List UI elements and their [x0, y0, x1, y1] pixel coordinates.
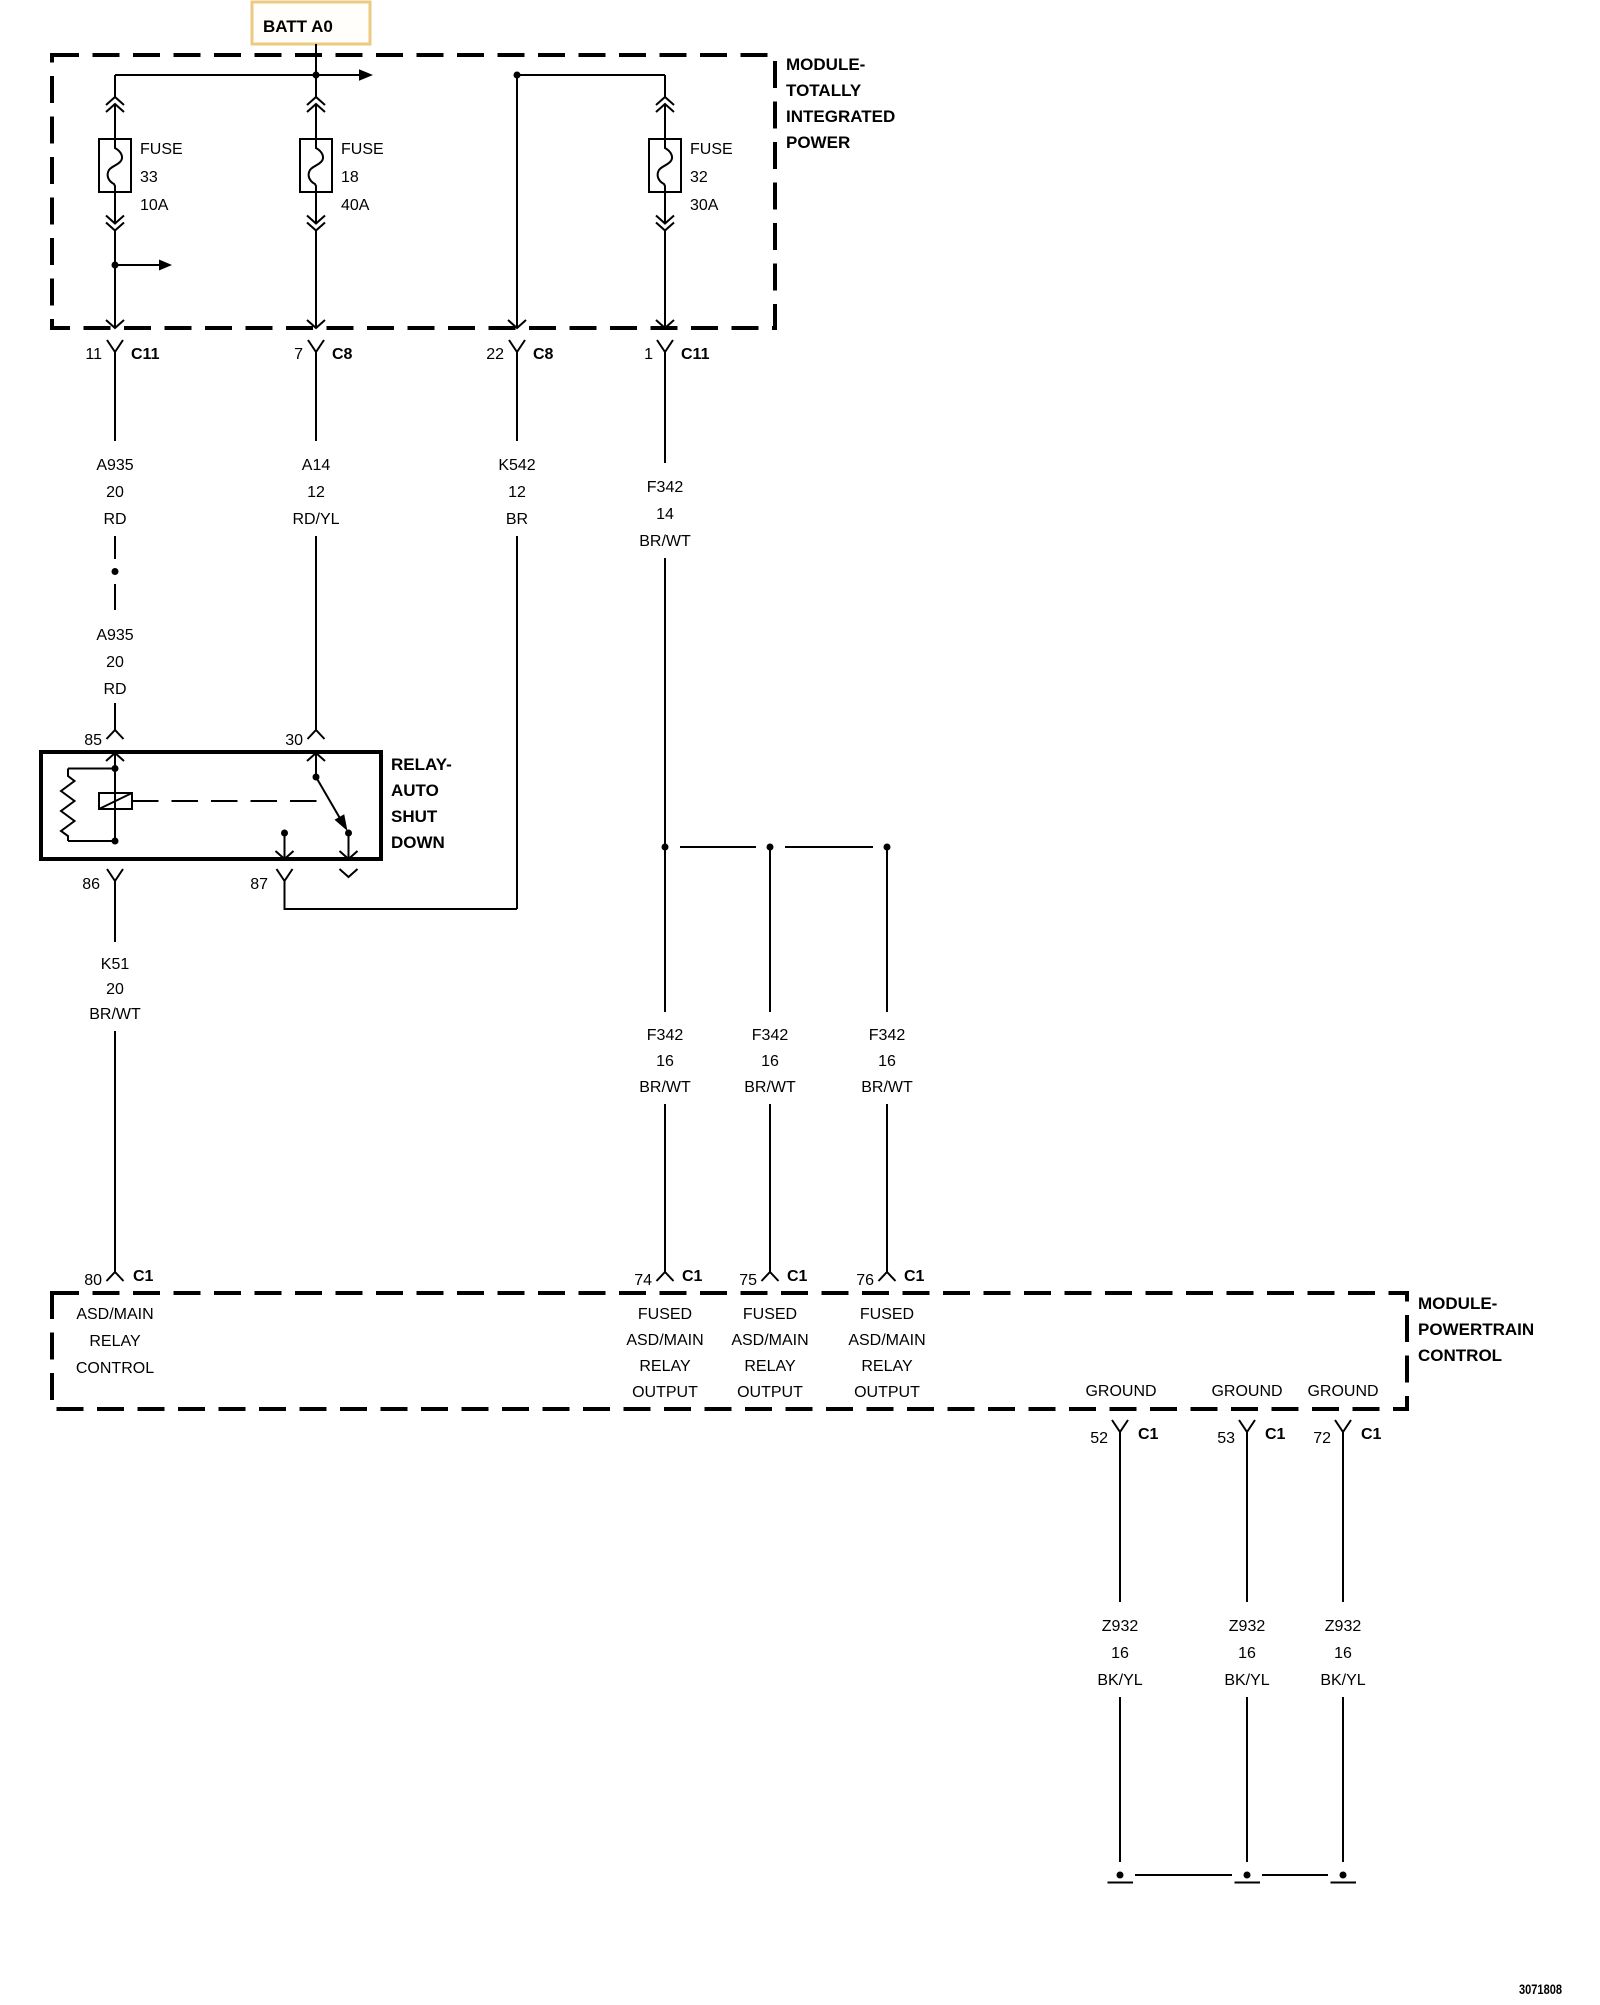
connector pin 80 C1 — [84, 1268, 153, 1289]
svg-text:BR/WT: BR/WT — [744, 1079, 796, 1096]
svg-text:ASD/MAIN: ASD/MAIN — [76, 1306, 153, 1323]
wire ground bus 2 — [1262, 1874, 1328, 1876]
svg-text:C8: C8 — [332, 346, 353, 363]
svg-text:RELAY: RELAY — [89, 1333, 141, 1350]
chevrons up fuse18 — [307, 97, 325, 112]
chevron at TIPM edge pin 1 — [656, 320, 674, 328]
connector pin 72 C1 — [1313, 1420, 1381, 1447]
wire F342 16 b upper — [769, 847, 771, 1012]
wire F342 14 upper — [664, 352, 666, 463]
wire K51 long run — [114, 1031, 116, 1272]
svg-text:BR/WT: BR/WT — [639, 533, 691, 550]
svg-text:32: 32 — [690, 169, 708, 186]
svg-text:OUTPUT: OUTPUT — [854, 1384, 920, 1401]
wire K542 long run — [516, 536, 518, 909]
dashed mechanical link — [132, 800, 318, 802]
wire into fuse32 — [664, 104, 666, 139]
relay Auto Shut Down box — [41, 752, 381, 859]
fuse 32 30A — [649, 139, 681, 192]
svg-text:FUSE: FUSE — [140, 141, 183, 158]
wire Z932 52 lower — [1119, 1697, 1121, 1862]
svg-text:87: 87 — [250, 876, 268, 893]
resistor relay coil zigzag — [61, 769, 75, 842]
svg-text:FUSED: FUSED — [638, 1306, 692, 1323]
svg-text:C1: C1 — [133, 1268, 154, 1285]
svg-text:A14: A14 — [302, 457, 331, 474]
svg-text:74: 74 — [634, 1272, 652, 1289]
svg-text:RELAY: RELAY — [861, 1358, 913, 1375]
svg-text:A935: A935 — [96, 627, 133, 644]
svg-text:14: 14 — [656, 506, 674, 523]
svg-text:30: 30 — [285, 732, 303, 749]
svg-text:BK/YL: BK/YL — [1224, 1672, 1269, 1689]
node switch pivot — [313, 774, 320, 781]
ground symbol a — [1108, 1882, 1134, 1884]
svg-text:BR/WT: BR/WT — [861, 1079, 913, 1096]
relay coil element box — [99, 793, 132, 809]
wire splice bus 1 — [680, 846, 756, 848]
module TIPM name label — [786, 55, 895, 152]
wire K51 label — [89, 956, 141, 1023]
wire F342 16 a upper — [664, 847, 666, 1012]
fuse 33 10A — [99, 139, 131, 192]
unused NO terminal chevron — [340, 869, 358, 877]
wire relay coil vertical — [114, 753, 116, 841]
wire A14 upper — [315, 352, 317, 441]
svg-text:ASD/MAIN: ASD/MAIN — [848, 1332, 925, 1349]
wire Z932 72 label — [1320, 1618, 1365, 1689]
svg-text:22: 22 — [486, 346, 504, 363]
wire below fuse33 — [114, 192, 116, 224]
svg-text:K51: K51 — [101, 956, 130, 973]
wire F342 16 b label — [744, 1027, 796, 1096]
svg-text:10A: 10A — [140, 197, 169, 214]
svg-text:33: 33 — [140, 169, 158, 186]
wire pin 87 to K542 — [285, 881, 518, 909]
wire Z932 52 label — [1097, 1618, 1142, 1689]
ground symbol b — [1235, 1882, 1261, 1884]
chevron at TIPM edge pin 22 — [508, 320, 526, 328]
svg-text:GROUND: GROUND — [1211, 1383, 1282, 1400]
node splice F342 a — [662, 844, 669, 851]
svg-text:80: 80 — [84, 1272, 102, 1289]
wire fuse18 top — [315, 75, 317, 97]
svg-text:F342: F342 — [647, 479, 684, 496]
svg-text:FUSE: FUSE — [341, 141, 384, 158]
svg-text:C11: C11 — [131, 346, 160, 363]
svg-text:MODULE-: MODULE- — [1418, 1294, 1497, 1313]
chevrons up fuse32 — [656, 97, 674, 112]
svg-text:3071808: 3071808 — [1519, 1982, 1562, 1997]
wire A14 label — [292, 457, 339, 528]
relay pin 85 — [84, 730, 123, 749]
svg-text:RD: RD — [103, 681, 126, 698]
connector pin 75 C1 — [739, 1268, 807, 1289]
svg-text:TOTALLY: TOTALLY — [786, 81, 862, 100]
svg-text:SHUT: SHUT — [391, 807, 438, 826]
wire F342 16 a lower — [664, 1104, 666, 1272]
svg-text:C11: C11 — [681, 346, 710, 363]
svg-text:CONTROL: CONTROL — [76, 1360, 154, 1377]
wire ground bus 1 — [1135, 1874, 1232, 1876]
svg-text:F342: F342 — [647, 1027, 684, 1044]
svg-text:INTEGRATED: INTEGRATED — [786, 107, 895, 126]
svg-text:16: 16 — [1111, 1645, 1129, 1662]
wire pin 87 down — [284, 833, 286, 859]
node splice A935 — [112, 568, 119, 575]
wire coil resistor top link — [68, 768, 115, 770]
node relay coil bottom — [112, 838, 119, 845]
svg-text:C1: C1 — [1138, 1426, 1159, 1443]
svg-text:30A: 30A — [690, 197, 719, 214]
wire A935 label — [96, 457, 133, 528]
wire A935 label 2 — [96, 627, 133, 698]
wire fuse33 top — [114, 75, 116, 97]
svg-text:11: 11 — [85, 346, 102, 363]
wire K542 inside TIPM — [516, 75, 518, 328]
power source label BATT A0 — [252, 2, 370, 44]
svg-text:16: 16 — [1334, 1645, 1352, 1662]
svg-text:16: 16 — [1238, 1645, 1256, 1662]
svg-text:20: 20 — [106, 981, 124, 998]
wire into fuse18 — [315, 104, 317, 139]
wire F342 16 b lower — [769, 1104, 771, 1272]
svg-text:53: 53 — [1217, 1430, 1235, 1447]
svg-text:RD/YL: RD/YL — [292, 511, 339, 528]
chevron relay pin 85 inside — [106, 753, 124, 761]
svg-text:BR/WT: BR/WT — [639, 1079, 691, 1096]
svg-text:AUTO: AUTO — [391, 781, 439, 800]
svg-text:BK/YL: BK/YL — [1097, 1672, 1142, 1689]
fuse 18 value label — [341, 141, 384, 214]
svg-text:16: 16 — [656, 1053, 674, 1070]
node ground splice c — [1340, 1872, 1347, 1879]
relay pin 30 — [285, 730, 324, 749]
chevrons down fuse18 — [307, 216, 325, 231]
svg-text:DOWN: DOWN — [391, 833, 445, 852]
wire K542 label — [498, 457, 535, 528]
svg-text:POWERTRAIN: POWERTRAIN — [1418, 1320, 1534, 1339]
svg-text:BATT A0: BATT A0 — [263, 17, 333, 36]
svg-text:OUTPUT: OUTPUT — [737, 1384, 803, 1401]
off-page arrow right — [359, 69, 373, 80]
svg-text:MODULE-: MODULE- — [786, 55, 865, 74]
svg-text:FUSED: FUSED — [743, 1306, 797, 1323]
svg-text:BR/WT: BR/WT — [89, 1006, 141, 1023]
relay name label — [391, 755, 452, 852]
wire from BATT A0 down into TIPM — [315, 44, 317, 75]
connector pin 11 C11 — [85, 340, 159, 363]
ground symbol c — [1331, 1882, 1357, 1884]
node ground splice b — [1244, 1872, 1251, 1879]
module PCM name label — [1418, 1294, 1534, 1365]
connector pin 22 C8 — [486, 340, 553, 363]
relay pin 87 — [250, 869, 292, 893]
PCM pin 75 function label — [731, 1306, 808, 1401]
chevrons down fuse32 — [656, 216, 674, 231]
svg-text:BK/YL: BK/YL — [1320, 1672, 1365, 1689]
fuse 32 value label — [690, 141, 733, 214]
chevrons down fuse33 — [106, 216, 124, 231]
wire A935 segment 2 — [114, 584, 116, 610]
svg-text:Z932: Z932 — [1229, 1618, 1266, 1635]
fuse 18 40A — [300, 139, 332, 192]
wire F342 16 c lower — [886, 1104, 888, 1272]
svg-text:75: 75 — [739, 1272, 757, 1289]
svg-text:RELAY: RELAY — [744, 1358, 796, 1375]
wire fuse32 to connector — [664, 231, 666, 329]
svg-text:85: 85 — [84, 732, 102, 749]
svg-text:GROUND: GROUND — [1085, 1383, 1156, 1400]
wire below fuse32 — [664, 192, 666, 224]
wire Z932 53 lower — [1246, 1697, 1248, 1862]
connector pin 7 C8 — [294, 340, 352, 363]
svg-text:16: 16 — [878, 1053, 896, 1070]
svg-text:20: 20 — [106, 484, 124, 501]
svg-text:76: 76 — [856, 1272, 874, 1289]
module Totally Integrated Power box — [52, 55, 775, 328]
connector pin 74 C1 — [634, 1268, 702, 1289]
svg-text:POWER: POWER — [786, 133, 850, 152]
svg-text:7: 7 — [294, 346, 303, 363]
wire coil resistor bottom link — [68, 840, 115, 842]
off-page arrow branch — [115, 264, 159, 266]
svg-text:40A: 40A — [341, 197, 370, 214]
svg-text:C8: C8 — [533, 346, 554, 363]
chevron NO at relay edge — [340, 851, 358, 859]
svg-text:20: 20 — [106, 654, 124, 671]
svg-text:ASD/MAIN: ASD/MAIN — [626, 1332, 703, 1349]
connector pin 52 C1 — [1090, 1420, 1158, 1447]
node splice F342 c — [884, 844, 891, 851]
wire NO contact down — [348, 833, 350, 859]
node junction BATT feed — [313, 72, 320, 79]
wire fuse33 to connector — [114, 231, 116, 329]
svg-text:K542: K542 — [498, 457, 535, 474]
wire Z932 52 upper — [1119, 1432, 1121, 1602]
wire K542 upper — [516, 352, 518, 441]
wire Z932 72 lower — [1342, 1697, 1344, 1862]
wire splice bus 2 — [785, 846, 873, 848]
wire fuse18 to connector — [315, 231, 317, 329]
svg-text:C1: C1 — [787, 1268, 808, 1285]
fuse 33 value label — [140, 141, 183, 214]
node junction branch A935 — [112, 262, 119, 269]
svg-text:RELAY-: RELAY- — [391, 755, 452, 774]
svg-text:CONTROL: CONTROL — [1418, 1346, 1502, 1365]
svg-text:OUTPUT: OUTPUT — [632, 1384, 698, 1401]
wire F342 14 to splice — [664, 558, 666, 847]
wire A935 segment — [114, 536, 116, 559]
svg-text:Z932: Z932 — [1325, 1618, 1362, 1635]
svg-text:ASD/MAIN: ASD/MAIN — [731, 1332, 808, 1349]
svg-text:FUSE: FUSE — [690, 141, 733, 158]
wire below fuse18 — [315, 192, 317, 224]
wire fuse32 top — [664, 75, 666, 97]
svg-text:C1: C1 — [1265, 1426, 1286, 1443]
wire feed to fuse 32 — [517, 74, 665, 76]
svg-text:52: 52 — [1090, 1430, 1108, 1447]
chevron pin 87 at relay edge — [276, 851, 294, 859]
svg-text:16: 16 — [761, 1053, 779, 1070]
relay pin 86 — [82, 869, 123, 893]
svg-text:RELAY: RELAY — [639, 1358, 691, 1375]
wire Z932 53 upper — [1246, 1432, 1248, 1602]
wire A935 to relay — [114, 703, 116, 730]
svg-text:F342: F342 — [869, 1027, 906, 1044]
svg-text:18: 18 — [341, 169, 359, 186]
connector pin 76 C1 — [856, 1268, 924, 1289]
svg-text:Z932: Z932 — [1102, 1618, 1139, 1635]
wire F342 14 label — [639, 479, 691, 550]
svg-text:86: 86 — [82, 876, 100, 893]
svg-text:FUSED: FUSED — [860, 1306, 914, 1323]
switch arm with arrow — [316, 777, 348, 831]
node junction K542 feed — [514, 72, 521, 79]
PCM pin 80 function label — [76, 1306, 154, 1377]
wire into fuse33 — [114, 104, 116, 139]
wire F342 16 c upper — [886, 847, 888, 1012]
chevron relay pin 30 inside — [307, 753, 325, 761]
chevron at TIPM edge pin 11 — [106, 320, 124, 328]
svg-text:72: 72 — [1313, 1430, 1331, 1447]
connector pin 1 C11 — [644, 340, 709, 363]
svg-text:A935: A935 — [96, 457, 133, 474]
chevron at TIPM edge pin 7 — [307, 320, 325, 328]
svg-text:RD: RD — [103, 511, 126, 528]
svg-text:BR: BR — [506, 511, 528, 528]
PCM pin 74 function label — [626, 1306, 703, 1401]
wire K51 upper — [114, 881, 116, 942]
node pin 87 contact — [281, 830, 288, 837]
wire F342 16 a label — [639, 1027, 691, 1096]
svg-text:F342: F342 — [752, 1027, 789, 1044]
node switch NO contact — [345, 830, 352, 837]
svg-text:C1: C1 — [1361, 1426, 1382, 1443]
node relay coil top — [112, 765, 119, 772]
wire Z932 53 label — [1224, 1618, 1269, 1689]
svg-text:C1: C1 — [682, 1268, 703, 1285]
wire F342 16 c label — [861, 1027, 913, 1096]
svg-text:12: 12 — [307, 484, 325, 501]
svg-text:GROUND: GROUND — [1307, 1383, 1378, 1400]
module Powertrain Control box — [52, 1293, 1407, 1409]
wire A14 to relay — [315, 536, 317, 730]
connector pin 53 C1 — [1217, 1420, 1285, 1447]
svg-text:C1: C1 — [904, 1268, 925, 1285]
svg-text:12: 12 — [508, 484, 526, 501]
node splice F342 b — [767, 844, 774, 851]
PCM pin 76 function label — [848, 1306, 925, 1401]
wire A935 upper — [114, 352, 116, 441]
wire feed bus to fuses — [115, 74, 360, 76]
current direction chevrons up fuse33 — [106, 97, 124, 112]
wire Z932 72 upper — [1342, 1432, 1344, 1602]
svg-text:1: 1 — [644, 346, 653, 363]
wire switch common — [315, 753, 317, 777]
node ground splice a — [1117, 1872, 1124, 1879]
